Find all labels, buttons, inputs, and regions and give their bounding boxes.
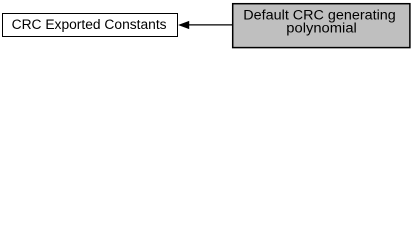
wire: edge line from gray box to arrowhead (188, 24, 233, 26)
doxygen group dependency graph (0, 0, 413, 51)
svg-text:CRC Exported Constants: CRC Exported Constants (12, 17, 167, 32)
node: Default CRC generating polynomial (gray box, current node) (233, 4, 410, 48)
background (0, 0, 413, 51)
node: CRC Exported Constants (box) (3, 14, 178, 37)
arrowhead pointing at CRC Exported Constants (179, 21, 189, 28)
svg-text:polynomial: polynomial (286, 21, 357, 36)
